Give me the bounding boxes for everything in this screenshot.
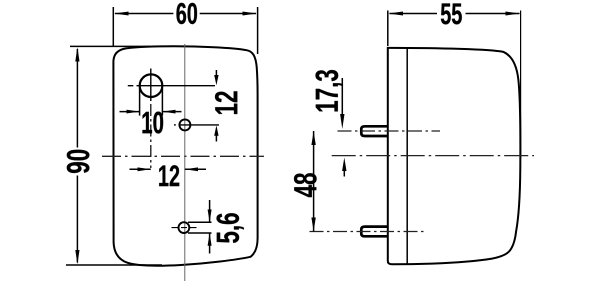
- dimension 12 (vertical): value label: [215, 91, 237, 114]
- upper mounting stud: [361, 126, 388, 136]
- dimension 60: right extension line: [257, 7, 259, 54]
- dimension 60: left arrowhead: [114, 12, 129, 16]
- lower stud centerline: [310, 231, 426, 233]
- horizontal centerline of side view: [332, 155, 534, 157]
- dimension 60: left extension line: [112, 7, 114, 47]
- dimension 17,3: value label: [316, 70, 343, 111]
- dimension 60: dimension line: [115, 13, 173, 15]
- mounting hole (d10): [140, 74, 163, 97]
- dimension 12 (horizontal): left arrow: [130, 168, 151, 170]
- dimension 90: top extension line: [70, 45, 150, 47]
- dimension 55: left extension line: [387, 11, 389, 47]
- upper stud centerline: [338, 130, 441, 132]
- dimension 5,6: bottom extension line: [188, 232, 212, 234]
- hole d10 horizontal crosshair / 12 top extension line: [128, 85, 134, 87]
- dimension 55: left arrowhead: [388, 12, 403, 16]
- dimension 48: value label: [294, 173, 317, 197]
- dimension 10: right tangent extension line: [161, 88, 163, 116]
- centerline leader arrow pointing up: [343, 168, 345, 177]
- dimension 48: bottom arrowhead: [311, 218, 315, 232]
- dimension 12 (horizontal): right arrow: [185, 168, 206, 170]
- bottom hole crosshair: [172, 227, 197, 229]
- lower mounting stud: [361, 227, 388, 237]
- dimension 55: dimension line: [390, 13, 438, 15]
- dimension 90: bottom extension line: [66, 264, 162, 266]
- hole d10 vertical centerline: [150, 69, 152, 102]
- dimension 48: top arrowhead: [311, 131, 315, 145]
- dimension 90: top arrowhead: [75, 47, 79, 62]
- dimension 10: left tangent extension line: [139, 88, 141, 116]
- dimension 90: value label: [67, 150, 90, 173]
- dimension 5,6: top extension line: [188, 221, 212, 223]
- dimension 48: dimension line: [313, 131, 315, 232]
- dimension 60: right arrowhead: [243, 12, 258, 16]
- dimension 60: value label: [177, 3, 198, 24]
- dimension 55: value label: [441, 4, 462, 25]
- dimension 10: value label: [143, 112, 164, 134]
- small hole crosshair / 12 bottom extension line: [174, 124, 176, 126]
- dimension 10: left arrow: [120, 111, 140, 113]
- vertical centerline of front view: [184, 44, 186, 281]
- dimension 55: right arrowhead: [506, 12, 521, 16]
- front view body outline: [113, 46, 257, 265]
- dimension 5,6: bottom arrow: [209, 233, 211, 254]
- horizontal centerline of front view: [102, 155, 264, 157]
- small hole (top): [179, 119, 190, 130]
- side view inner vertical line (housing flange): [406, 48, 408, 263]
- dimension 10: right arrow: [162, 111, 181, 113]
- dimension 55: right extension line: [520, 11, 522, 159]
- dimension 90: bottom arrowhead: [75, 250, 79, 264]
- dimension 17,3: leader arrow pointing down to stud centerline: [341, 78, 343, 116]
- dimension 5,6: top arrow: [209, 200, 211, 222]
- dimension 90: dimension line: [76, 49, 78, 148]
- dimension 12 (horizontal): value label: [159, 165, 179, 186]
- side view body outline: [388, 48, 521, 264]
- dimension 12 (vertical): dimension line with outside arrows: [215, 70, 217, 77]
- dimension 5,6: value label: [217, 213, 244, 243]
- small hole (bottom, d5.6): [179, 222, 190, 233]
